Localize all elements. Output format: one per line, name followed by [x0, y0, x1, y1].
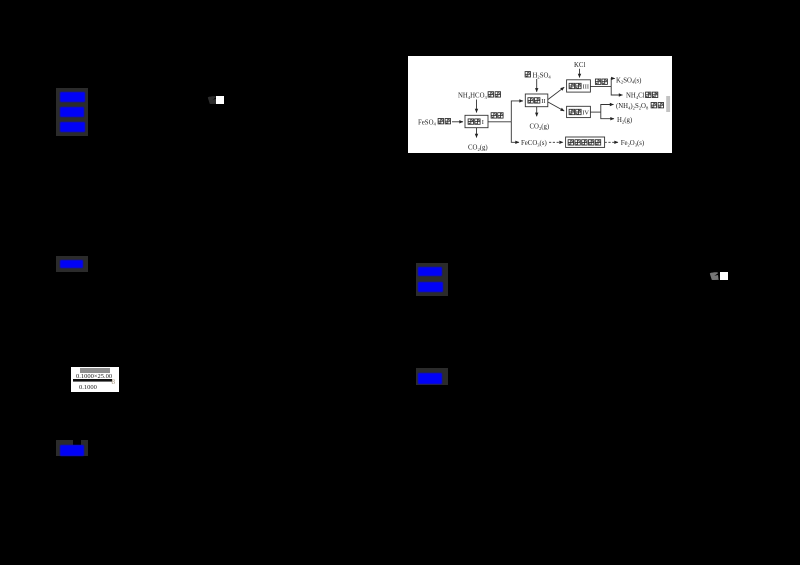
- svg-text:III: III: [583, 84, 589, 91]
- svg-text:NH4HCO3: NH4HCO3: [458, 93, 487, 100]
- svg-text:KCl: KCl: [574, 62, 585, 69]
- svg-text:FeSO4: FeSO4: [418, 119, 437, 126]
- svg-text:II: II: [541, 98, 545, 105]
- svg-text:0.1000×25.00: 0.1000×25.00: [76, 373, 112, 380]
- svg-text:I: I: [482, 119, 484, 126]
- svg-text:8: 8: [112, 378, 116, 386]
- svg-text:Fe2O3(s): Fe2O3(s): [621, 140, 645, 147]
- svg-text:CO2(g): CO2(g): [530, 124, 550, 131]
- svg-text:CO2(g): CO2(g): [468, 145, 488, 152]
- svg-text:NH4Cl: NH4Cl: [626, 93, 645, 100]
- svg-text:K2SO4(s): K2SO4(s): [616, 77, 641, 84]
- svg-text:H2(g): H2(g): [617, 117, 632, 124]
- svg-text:0.1000: 0.1000: [79, 384, 97, 391]
- svg-text:IV: IV: [582, 110, 589, 117]
- svg-text:FeCO3(s): FeCO3(s): [521, 140, 547, 147]
- svg-text:(NH4)2S2O8: (NH4)2S2O8: [616, 103, 649, 110]
- svg-text:H2SO4: H2SO4: [533, 72, 552, 79]
